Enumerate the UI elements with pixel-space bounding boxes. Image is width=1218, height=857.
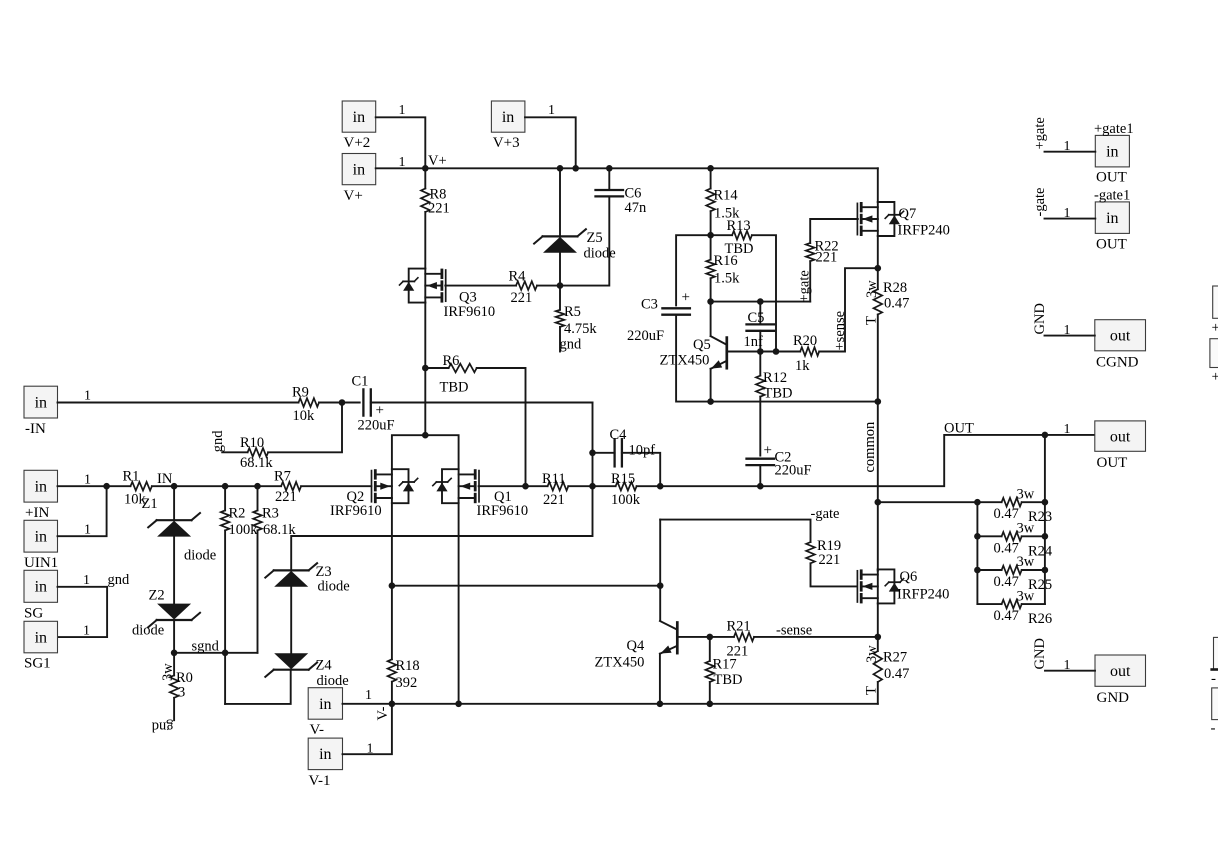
svg-text:R10: R10 xyxy=(240,435,264,451)
svg-text:in: in xyxy=(35,579,47,596)
transistor Q7 IRFP240 (N-MOSFET, gate left) xyxy=(856,203,858,234)
wire feedback loop to Z3 xyxy=(291,403,592,571)
svg-text:T: T xyxy=(864,316,880,325)
svg-text:100k: 100k xyxy=(611,492,641,508)
resistor R14 1.5k xyxy=(710,168,712,188)
port -gate1 OUT (in) xyxy=(1095,202,1129,234)
svg-text:Q6: Q6 xyxy=(900,569,918,585)
svg-text:IRFP240: IRFP240 xyxy=(897,587,949,603)
svg-text:1.5k: 1.5k xyxy=(714,271,740,287)
svg-text:Q7: Q7 xyxy=(899,206,917,222)
wire V-1 to V- rail xyxy=(343,704,392,754)
svg-text:1: 1 xyxy=(1064,323,1071,338)
svg-text:ZTX450: ZTX450 xyxy=(660,353,710,369)
node OUT/R23 bus xyxy=(1042,432,1049,439)
svg-text:R5: R5 xyxy=(564,304,581,320)
svg-text:+: + xyxy=(1212,320,1218,336)
svg-text:IRF9610: IRF9610 xyxy=(477,503,529,519)
capacitor C2 220uF xyxy=(747,458,775,460)
svg-text:+: + xyxy=(376,403,384,419)
resistor R6 TBD xyxy=(425,367,448,369)
node sgnd/Z2/R0 xyxy=(171,650,178,657)
svg-text:sgnd: sgnd xyxy=(192,639,220,655)
svg-text:C3: C3 xyxy=(641,297,658,313)
svg-text:GND: GND xyxy=(1097,690,1130,706)
wire +gate stub xyxy=(1045,151,1096,153)
wire CGND stub xyxy=(1045,335,1095,337)
svg-text:out: out xyxy=(1110,328,1131,345)
svg-text:V-1: V-1 xyxy=(309,773,331,789)
svg-text:OUT: OUT xyxy=(1096,237,1127,253)
node R16/C5/+gate xyxy=(707,298,714,305)
svg-text:0.47: 0.47 xyxy=(994,506,1019,522)
wire R1 to R7 (net IN) xyxy=(152,485,281,487)
wire sgnd xyxy=(174,652,257,654)
svg-text:in: in xyxy=(353,109,365,126)
svg-text:in: in xyxy=(35,529,47,546)
svg-text:3w: 3w xyxy=(160,663,176,681)
svg-text:3w: 3w xyxy=(1017,521,1035,537)
resistor R28 0.47 3w xyxy=(877,268,879,289)
transistor Q6 IRFP240 (N-MOSFET, gate left) xyxy=(856,571,858,602)
wire Z1 to Z2 xyxy=(173,537,175,604)
svg-text:1: 1 xyxy=(1064,206,1071,221)
svg-text:0.47: 0.47 xyxy=(994,540,1019,556)
node R15/C4 right xyxy=(657,483,664,490)
resistor R1 10k xyxy=(131,482,152,491)
svg-text:V-: V- xyxy=(375,706,391,720)
svg-text:TBD: TBD xyxy=(764,386,793,402)
node IN/R3 xyxy=(254,483,261,490)
svg-text:R28: R28 xyxy=(883,280,907,296)
svg-text:220uF: 220uF xyxy=(775,463,812,479)
svg-text:UIN1: UIN1 xyxy=(24,555,58,571)
svg-text:R2: R2 xyxy=(229,506,246,522)
wire Q2 drain down xyxy=(391,503,393,586)
resistor R3 68.1k xyxy=(257,486,259,510)
svg-text:+IN: +IN xyxy=(25,505,49,521)
svg-text:+gate: +gate xyxy=(1032,117,1048,149)
svg-text:gnd: gnd xyxy=(151,719,174,735)
port UIN1 (in) xyxy=(24,520,58,552)
svg-text:R18: R18 xyxy=(396,658,420,674)
svg-text:V+: V+ xyxy=(344,188,363,204)
port +IN (in) xyxy=(24,470,58,502)
resistor R25 0.47 3w xyxy=(977,569,1001,571)
svg-text:10k: 10k xyxy=(293,408,316,424)
svg-text:C6: C6 xyxy=(625,185,642,201)
svg-text:R17: R17 xyxy=(713,657,737,673)
wire R23-R26 right bus xyxy=(1044,435,1046,604)
wire Q4 collector vertical xyxy=(659,520,661,621)
node left bus R25 xyxy=(974,567,981,574)
svg-text:common: common xyxy=(862,421,878,472)
wire node to C3 top xyxy=(676,235,711,305)
svg-text:R13: R13 xyxy=(727,218,751,234)
svg-text:IN: IN xyxy=(157,471,173,487)
wire -gate loop top xyxy=(660,520,810,543)
svg-text:Z1: Z1 xyxy=(142,496,158,512)
capacitor C5 1nf xyxy=(759,302,761,325)
node +IN/UIN1 xyxy=(103,483,110,490)
resistor R5 4.75k xyxy=(559,286,561,310)
node R6/gate line xyxy=(522,483,529,490)
svg-text:OUT: OUT xyxy=(1096,170,1127,186)
svg-text:diode: diode xyxy=(318,579,350,595)
wire +IN to R1 xyxy=(58,485,131,487)
node right bus R24 xyxy=(1042,533,1049,540)
resistor R19 221 xyxy=(806,542,815,563)
svg-text:221: 221 xyxy=(543,492,565,508)
svg-text:OUT: OUT xyxy=(1097,455,1128,471)
resistor R13 TBD xyxy=(711,234,733,236)
svg-text:R12: R12 xyxy=(763,370,787,386)
svg-text:0.47: 0.47 xyxy=(884,296,909,312)
capacitor C1 220uF xyxy=(362,389,364,415)
svg-text:R11: R11 xyxy=(542,471,566,487)
svg-text:R26: R26 xyxy=(1028,611,1052,627)
svg-text:R14: R14 xyxy=(714,188,739,204)
wire Q1 gate to R11 xyxy=(479,485,548,487)
wire UIN1 to +IN node xyxy=(58,486,107,536)
svg-text:R1: R1 xyxy=(123,469,140,485)
wire Q2 drain to Q4 collector (-gate) xyxy=(392,585,660,587)
svg-text:R6: R6 xyxy=(443,353,460,369)
svg-text:1: 1 xyxy=(84,389,91,404)
node C2 bottom xyxy=(757,483,764,490)
svg-text:0.47: 0.47 xyxy=(884,666,909,682)
svg-text:diode: diode xyxy=(132,623,164,639)
node Q7 source/+sense/R28 xyxy=(875,265,882,272)
resistor R21 221 xyxy=(734,633,754,642)
wire V- rail xyxy=(343,703,878,705)
svg-text:0.47: 0.47 xyxy=(994,574,1019,590)
capacitor C3 220uF xyxy=(662,307,690,309)
wire SG to SG1 xyxy=(58,587,108,637)
node V- rail/R17 xyxy=(707,701,714,708)
zener Z1 xyxy=(173,486,175,520)
node Q4 collector vertical xyxy=(657,582,664,589)
svg-text:-: - xyxy=(1211,671,1216,687)
svg-text:Z2: Z2 xyxy=(149,588,165,604)
port OUT (out) xyxy=(1095,421,1146,451)
resistor R2 100k xyxy=(224,486,226,510)
zener Z2 xyxy=(157,619,192,621)
wire V+ rail xyxy=(376,167,878,169)
wire R2 bottom to Z4 bottom xyxy=(225,670,291,704)
svg-text:-IN: -IN xyxy=(25,421,46,437)
port V+3 (in) xyxy=(491,101,525,132)
partial connector box top-right 1 xyxy=(1213,286,1218,318)
wire R15 to OUT corner xyxy=(637,435,1095,486)
svg-text:220uF: 220uF xyxy=(627,328,664,344)
wire R4 node to C6 bottom xyxy=(560,197,609,286)
svg-text:Q4: Q4 xyxy=(627,638,645,654)
wire V+2 to V+ rail xyxy=(376,117,426,168)
svg-text:221: 221 xyxy=(819,552,841,568)
wire common to R23 bus xyxy=(878,501,978,503)
svg-text:in: in xyxy=(1106,144,1118,161)
node common/R23 bus xyxy=(875,499,882,506)
node R9/C1/R10 xyxy=(339,399,346,406)
partial connector box bottom-right 1 xyxy=(1214,637,1218,669)
node R17/base xyxy=(707,634,714,641)
svg-text:CGND: CGND xyxy=(1096,355,1139,371)
node right bus R23 xyxy=(1042,499,1049,506)
svg-text:+: + xyxy=(764,443,772,459)
node V- rail/Q4 emitter xyxy=(657,701,664,708)
svg-text:1: 1 xyxy=(1064,422,1071,437)
node V+/V+3 xyxy=(572,165,579,172)
node R18/-gate xyxy=(389,582,396,589)
resistor R11 221 xyxy=(548,482,569,491)
svg-text:R20: R20 xyxy=(793,333,817,349)
svg-text:IRF9610: IRF9610 xyxy=(330,503,382,519)
transistor Q4 ZTX450 (NPN) xyxy=(676,623,679,654)
svg-text:-: - xyxy=(1211,721,1216,737)
node C4 tap xyxy=(589,450,596,457)
svg-text:diode: diode xyxy=(317,673,349,689)
svg-text:OUT: OUT xyxy=(944,421,974,437)
svg-text:R15: R15 xyxy=(611,471,635,487)
wire Q5 base line xyxy=(728,351,800,353)
svg-text:diode: diode xyxy=(584,246,616,262)
wire GND stub xyxy=(1045,670,1095,672)
node Q6 source/-sense/R27 xyxy=(875,634,882,641)
svg-text:gnd: gnd xyxy=(560,337,583,353)
node left bus R23 xyxy=(974,499,981,506)
svg-text:4.75k: 4.75k xyxy=(564,321,597,337)
svg-text:+: + xyxy=(1212,369,1218,385)
svg-text:1k: 1k xyxy=(795,358,810,374)
node R14/R13/R16/C3 xyxy=(707,232,714,239)
svg-text:IRF9610: IRF9610 xyxy=(444,304,496,320)
svg-text:221: 221 xyxy=(816,250,838,266)
port SG1 (in) xyxy=(24,621,58,653)
svg-text:GND: GND xyxy=(1032,303,1048,334)
svg-text:221: 221 xyxy=(428,201,450,217)
svg-text:3w: 3w xyxy=(1017,486,1035,502)
node V+/R8 xyxy=(422,165,429,172)
node left bus R24 xyxy=(974,533,981,540)
svg-text:47n: 47n xyxy=(625,200,648,216)
svg-text:ZTX450: ZTX450 xyxy=(595,655,645,671)
svg-text:in: in xyxy=(1106,210,1118,227)
svg-text:R9: R9 xyxy=(292,385,309,401)
node V+/Z5 xyxy=(557,165,564,172)
wire Q3 source to sources node xyxy=(424,303,426,436)
wire Q1 drain down to V- rail xyxy=(458,503,460,704)
svg-text:0.47: 0.47 xyxy=(994,608,1019,624)
svg-text:V+: V+ xyxy=(428,153,447,169)
wire R23-R26 left bus xyxy=(976,502,978,604)
svg-text:TBD: TBD xyxy=(714,672,743,688)
capacitor C4 10pf xyxy=(593,452,615,454)
svg-text:C4: C4 xyxy=(610,427,628,443)
svg-text:T: T xyxy=(864,686,880,695)
node R4/Z5/R5 xyxy=(557,282,564,289)
port CGND (out) xyxy=(1095,320,1146,351)
svg-text:C5: C5 xyxy=(748,310,765,326)
wire Q4 base / R21 / -sense xyxy=(679,636,734,638)
svg-text:10pf: 10pf xyxy=(629,443,656,459)
svg-text:Z4: Z4 xyxy=(316,658,333,674)
svg-text:3w: 3w xyxy=(1017,588,1035,604)
node Q3 source / R6 xyxy=(422,365,429,372)
svg-text:1: 1 xyxy=(83,624,90,639)
port GND (out) xyxy=(1095,655,1146,686)
svg-text:diode: diode xyxy=(184,548,216,564)
svg-text:68.1k: 68.1k xyxy=(240,455,273,471)
svg-text:1: 1 xyxy=(1064,139,1071,154)
resistor R24 0.47 3w xyxy=(977,535,1001,537)
resistor R8 221 xyxy=(424,168,426,188)
svg-text:1: 1 xyxy=(399,103,406,118)
svg-text:1: 1 xyxy=(83,573,90,588)
resistor R27 0.47 3w xyxy=(877,637,879,651)
node sources xyxy=(422,432,429,439)
port V+ (in) xyxy=(342,154,376,185)
svg-text:1: 1 xyxy=(1064,658,1071,673)
svg-text:in: in xyxy=(319,746,331,763)
wire stub bottom-right xyxy=(1212,668,1218,671)
svg-text:V-: V- xyxy=(310,722,324,738)
wire Z3 to Z4 xyxy=(290,587,292,654)
node R11/R15 xyxy=(589,483,596,490)
port V+2 (in) xyxy=(342,101,376,132)
svg-text:out: out xyxy=(1110,428,1131,445)
node rail/common xyxy=(875,398,882,405)
svg-text:R7: R7 xyxy=(274,469,291,485)
port SG (in) xyxy=(24,570,58,602)
resistor R9 10k xyxy=(299,398,320,407)
svg-text:Z5: Z5 xyxy=(587,230,603,246)
svg-text:TBD: TBD xyxy=(440,380,469,396)
resistor R18 392 xyxy=(391,586,393,660)
svg-text:220uF: 220uF xyxy=(358,418,395,434)
svg-text:in: in xyxy=(35,629,47,646)
wire V+3 to V+ rail xyxy=(525,117,576,168)
wire -IN to R9 xyxy=(58,402,299,404)
svg-text:gnd: gnd xyxy=(108,572,131,588)
svg-text:GND: GND xyxy=(1032,638,1048,669)
transistor Q5 ZTX450 (NPN) xyxy=(725,338,728,369)
svg-text:3w: 3w xyxy=(864,645,880,663)
svg-text:R4: R4 xyxy=(509,269,527,285)
svg-text:SG1: SG1 xyxy=(24,656,51,672)
svg-text:221: 221 xyxy=(511,290,533,306)
svg-text:V+2: V+2 xyxy=(344,135,371,151)
node V- rail/Q1 drain xyxy=(455,701,462,708)
resistor R7 221 xyxy=(281,482,301,491)
svg-text:R16: R16 xyxy=(714,253,738,269)
wire +sense up to Q7 source xyxy=(819,268,878,351)
resistor R20 1k xyxy=(800,347,819,356)
svg-text:221: 221 xyxy=(275,489,297,505)
svg-text:+gate: +gate xyxy=(797,270,813,302)
svg-text:-gate1: -gate1 xyxy=(1094,188,1130,204)
port V- (in) xyxy=(308,688,342,720)
svg-text:3w: 3w xyxy=(1017,554,1035,570)
svg-text:in: in xyxy=(35,394,47,411)
node V+/R14 xyxy=(707,165,714,172)
partial connector box top-right 2 xyxy=(1210,339,1218,368)
resistor R26 0.47 3w xyxy=(977,603,1001,605)
wire Q3 gate to R4 xyxy=(445,285,516,287)
svg-text:1: 1 xyxy=(365,688,372,703)
wire common vertical xyxy=(877,402,879,571)
svg-text:+gate1: +gate1 xyxy=(1094,121,1134,137)
svg-text:out: out xyxy=(1110,663,1131,680)
transistor Q2 IRF9610 (P-MOSFET, gate left) xyxy=(371,471,373,502)
resistor R17 TBD xyxy=(709,637,711,661)
capacitor C6 47n xyxy=(608,168,610,190)
port V-1 (in) xyxy=(308,738,342,770)
node C5 bottom/base xyxy=(757,348,764,355)
svg-text:-gate: -gate xyxy=(811,506,840,522)
node C5 top xyxy=(757,298,764,305)
node rail/Q5 emitter xyxy=(707,398,714,405)
wire -gate stub xyxy=(1045,218,1096,220)
wire sources bracket xyxy=(392,435,459,469)
node right bus R25 xyxy=(1042,567,1049,574)
svg-text:R27: R27 xyxy=(883,650,907,666)
wire +gate line xyxy=(711,301,811,303)
wire mid rail xyxy=(711,401,878,403)
transistor Q1 IRF9610 (P-MOSFET, gate right) xyxy=(478,471,480,502)
svg-text:gnd: gnd xyxy=(210,430,226,453)
resistor R16 1.5k xyxy=(710,235,712,259)
resistor R10 68.1k xyxy=(222,451,247,453)
svg-text:R21: R21 xyxy=(727,619,751,635)
resistor R12 TBD xyxy=(759,352,761,376)
transistor Q3 IRF9610 (P-MOSFET, gate right) xyxy=(445,270,447,301)
port -IN (in) xyxy=(24,386,58,418)
svg-text:in: in xyxy=(353,161,365,178)
zener Z3 xyxy=(274,569,309,571)
node IN/R2 xyxy=(222,483,229,490)
svg-text:1nf: 1nf xyxy=(744,334,764,350)
node R13 vertical/base xyxy=(773,348,780,355)
zener Z5 xyxy=(559,168,561,236)
wire C1 to feedback column xyxy=(371,402,593,404)
svg-text:3: 3 xyxy=(178,685,185,701)
svg-text:Q5: Q5 xyxy=(693,337,711,353)
resistor R22 221 xyxy=(810,219,858,243)
svg-text:+: + xyxy=(682,290,690,306)
svg-text:SG: SG xyxy=(24,606,43,622)
svg-text:IRFP240: IRFP240 xyxy=(898,223,950,239)
svg-text:in: in xyxy=(319,696,331,713)
resistor R0 3 3w xyxy=(173,653,175,676)
svg-text:in: in xyxy=(502,109,514,126)
node V- rail/R18 xyxy=(389,701,396,708)
partial connector box bottom-right 2 xyxy=(1212,688,1218,720)
zener Z4 xyxy=(274,669,309,671)
svg-text:-gate: -gate xyxy=(1032,188,1048,217)
resistor R23 0.47 3w xyxy=(977,501,1001,503)
svg-text:1: 1 xyxy=(548,103,555,118)
node V+/C6 xyxy=(606,165,613,172)
wire C3 bottom to rail xyxy=(676,315,711,402)
port +gate1 OUT (in) xyxy=(1095,135,1129,167)
resistor R4 221 xyxy=(516,281,537,290)
svg-text:in: in xyxy=(35,479,47,496)
svg-text:V+3: V+3 xyxy=(493,135,520,151)
svg-text:R3: R3 xyxy=(262,506,279,522)
resistor R15 100k xyxy=(616,482,637,491)
svg-text:-sense: -sense xyxy=(776,623,812,639)
